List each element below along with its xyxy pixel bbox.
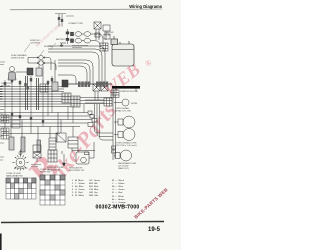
svg-text:STARTER MOTOR: STARTER MOTOR [120, 90, 138, 93]
svg-text:RECTIFIER 12V: RECTIFIER 12V [69, 170, 85, 172]
ignition pulse generator boxes [33, 145, 41, 152]
page background [0, 0, 181, 250]
horn [114, 99, 129, 106]
bullet connectors (sub-harness joints) [60, 29, 103, 48]
top vertical stubs above bullet connectors [58, 14, 63, 27]
bottom components row [13, 142, 132, 171]
left connector stack [1, 115, 20, 139]
watermark big diagonal Bike-Parts WEB [19, 58, 153, 196]
red stamp BIKE-PARTS WEB [133, 187, 169, 220]
svg-text:R/G Red: R/G Red [89, 186, 99, 188]
connector grids at bus terminal [62, 93, 80, 107]
inline connector marks above bus [4, 78, 53, 123]
svg-text:(SAE 1157): (SAE 1157) [118, 167, 129, 170]
top-left labels leader lines [24, 43, 56, 58]
svg-text:G/Y Green: G/Y Green [89, 179, 101, 182]
tail/brake lamp bulb [115, 153, 120, 159]
svg-text:Y — Yellow: Y — Yellow [112, 183, 125, 185]
svg-text:3 Bu Blue: 3 Bu Blue [72, 186, 84, 188]
svg-text:HORN: HORN [131, 103, 138, 105]
svg-text:CONNECTORS: CONNECTORS [68, 23, 83, 25]
svg-text:Bu — Blue: Bu — Blue [112, 186, 124, 188]
header rule [10, 8, 162, 11]
wire loop with inline bullet connectors [28, 58, 51, 71]
svg-text:B/W Blk: B/W Blk [89, 183, 98, 185]
wire feed to right side [80, 97, 112, 99]
svg-text:12V 21W x 2 (R and L): 12V 21W x 2 (R and L) [116, 145, 137, 147]
svg-text:Bl — Black: Bl — Black [112, 180, 125, 182]
battery [111, 36, 134, 66]
alternator (sunburst symbol) [13, 150, 29, 171]
row 2 [71, 39, 74, 43]
svg-text:BATTERY: BATTERY [56, 38, 66, 41]
exits [91, 33, 98, 35]
turn signal lamp rear [114, 129, 135, 141]
bottom rule [1, 222, 164, 223]
connector pin tables [6, 175, 65, 205]
ignition coil and spark plug row [9, 137, 56, 152]
vertical with connector pairs [67, 29, 69, 44]
svg-text:6 W White: 6 W White [72, 194, 85, 197]
vertical wires weaving through bus [5, 76, 84, 127]
starter magnetic switch box [111, 90, 119, 98]
regulator/rectifier box [76, 152, 89, 164]
svg-text:L/W Blue: L/W Blue [89, 189, 99, 191]
row 1 [71, 32, 74, 36]
svg-text:IGNITION SW: IGNITION SW [11, 58, 24, 60]
left stub + ground [60, 42, 66, 44]
svg-text:5 R Red: 5 R Red [72, 192, 83, 194]
harness wire loom nested corners [48, 46, 105, 84]
labels below [72, 45, 88, 47]
svg-text:Br — Brown: Br — Brown [112, 198, 125, 201]
wire runs below bus [0, 113, 92, 134]
connector table: right handlebar switch [40, 175, 65, 205]
multi-pin connector cluster [62, 80, 112, 106]
svg-text:RELAY: RELAY [104, 34, 111, 37]
left margin tiny label marks [0, 62, 5, 160]
svg-text:Wiring Diagrams: Wiring Diagrams [129, 4, 162, 9]
svg-text:RELAY 12V 21W: RELAY 12V 21W [115, 110, 131, 113]
svg-text:G — Green: G — Green [112, 188, 125, 191]
header text Wiring Diagrams [129, 4, 162, 9]
svg-text:0030Z-MVB-7000: 0030Z-MVB-7000 [96, 205, 140, 211]
component name labels (tiny text) [1, 23, 138, 178]
ignition switch / sensor components left [8, 55, 58, 92]
svg-text:HANDLEBAR SW: HANDLEBAR SW [6, 175, 23, 178]
svg-text:G/R Grn: G/R Grn [89, 191, 99, 194]
turn signal lamp front [114, 116, 135, 128]
wire color legend lists [72, 179, 130, 207]
svg-text:1 Bl Black: 1 Bl Black [72, 180, 84, 182]
switch boxes lower middle [56, 113, 95, 155]
connector table: left handlebar switch [6, 178, 36, 199]
wire bus: main harness horizontal wires [0, 87, 113, 141]
scan edge mark bottom left [0, 234, 2, 250]
sparse line terminal boxes [88, 111, 92, 114]
svg-text:R — Red: R — Red [112, 192, 123, 194]
watermark small faint top-left [35, 23, 62, 48]
starter relay cluster [94, 22, 110, 51]
svg-text:4 G Green: 4 G Green [72, 188, 85, 191]
connector pair on right feed wire [112, 146, 116, 156]
wire pairs crossing bus [25, 76, 27, 110]
wire drops to components [5, 113, 57, 143]
svg-text:RIGHT SW: RIGHT SW [40, 172, 50, 174]
svg-text:SENSOR: SENSOR [1, 86, 10, 88]
svg-text:MODULE: MODULE [44, 46, 54, 48]
svg-text:2 Y Yellow: 2 Y Yellow [72, 183, 85, 185]
svg-text:W — White: W — White [112, 195, 124, 198]
starter motor heavy cable bar [112, 86, 140, 89]
ground symbol with arrow [63, 154, 65, 163]
svg-text:CONTROL: CONTROL [30, 43, 41, 45]
left terminal ticks [0, 87, 3, 100]
svg-text:ALTERNATOR: ALTERNATOR [14, 167, 28, 170]
wire feed down then right [95, 104, 114, 133]
svg-text:19-5: 19-5 [148, 227, 161, 233]
svg-text:W/B Wht: W/B Wht [89, 194, 99, 197]
